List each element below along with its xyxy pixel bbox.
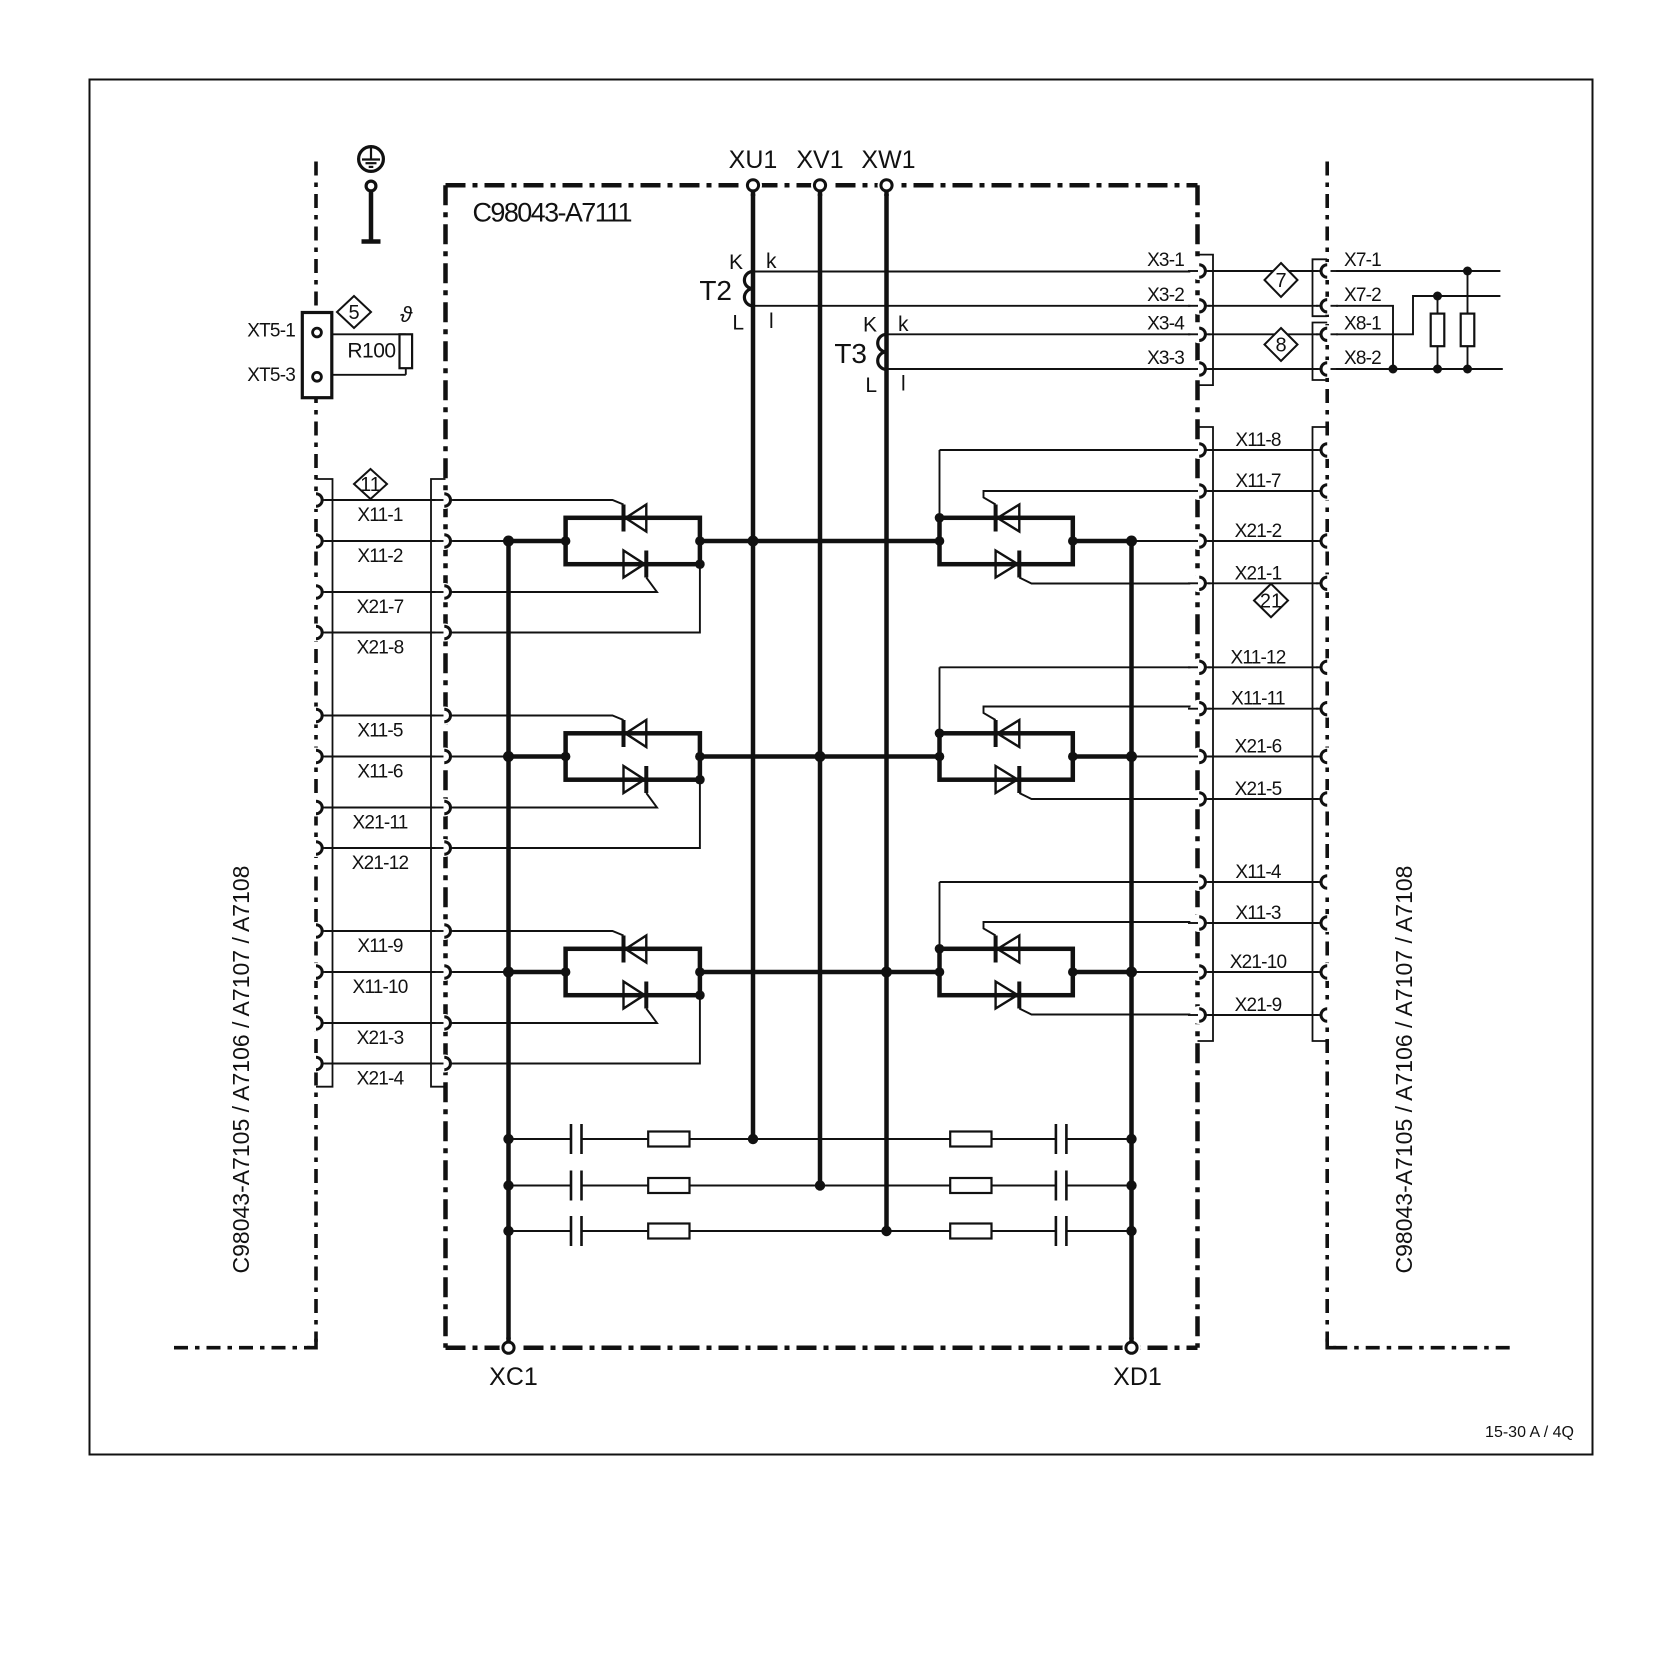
svg-text:X3-2: X3-2 bbox=[1147, 285, 1184, 306]
svg-text:X8-1: X8-1 bbox=[1344, 313, 1381, 334]
terminal XT5-1 bbox=[313, 328, 322, 337]
terminal XT5-3 bbox=[313, 372, 322, 381]
wire gate thyristor V2.2 (X21-11) bbox=[452, 793, 658, 808]
svg-text:XW1: XW1 bbox=[861, 146, 915, 174]
thyristor module V3 (left arm) bbox=[566, 949, 700, 995]
bracket X3 connector group bbox=[1198, 255, 1214, 386]
svg-text:L: L bbox=[732, 312, 744, 335]
thyristor V3.1 bbox=[626, 936, 647, 963]
thyristor V5.1 cathode bar bbox=[994, 720, 998, 747]
wire aux riser V6.1 bbox=[939, 882, 941, 949]
svg-text:X21-4: X21-4 bbox=[357, 1069, 405, 1090]
wire left connector row y=1023 bbox=[323, 1022, 444, 1024]
connector X11-9 (outer half) bbox=[316, 925, 322, 937]
wire gate thyristor V1.2 (X21-7) bbox=[452, 578, 658, 593]
junction module V3 aux corner bbox=[695, 990, 705, 1000]
junction left bus snubber row3 bbox=[503, 1226, 513, 1236]
connector X8-1 bbox=[1321, 328, 1327, 340]
junction left bus row3 bbox=[503, 967, 514, 978]
connector X11-1 (outer half) bbox=[316, 494, 322, 506]
junction phase snubber row3 bbox=[881, 1226, 891, 1236]
resistor R1a bbox=[648, 1132, 689, 1147]
thyristor V3.2 cathode bar bbox=[644, 982, 648, 1009]
thyristor V1.1 cathode bar bbox=[622, 505, 626, 532]
connector X11-7 (board half) bbox=[1199, 485, 1205, 497]
svg-text:X11-8: X11-8 bbox=[1235, 430, 1281, 451]
connector X21-2 (outer half) bbox=[1321, 535, 1327, 547]
wire gate thyristor V3.1 (X11-9) bbox=[452, 931, 624, 936]
svg-text:X21-12: X21-12 bbox=[352, 853, 409, 874]
terminal XD1 bbox=[1126, 1342, 1137, 1353]
svg-text:X3-4: X3-4 bbox=[1147, 313, 1185, 334]
wire aux riser V4.1 bbox=[939, 450, 941, 518]
svg-text:XT5-3: XT5-3 bbox=[247, 365, 295, 386]
connector X3-4 bbox=[1199, 328, 1205, 340]
wire right connector row y=491 bbox=[1206, 490, 1321, 492]
connector X21-1 (outer half) bbox=[1321, 577, 1327, 589]
capacitor C2a bbox=[570, 1171, 573, 1201]
wire X8-2 net bbox=[1331, 368, 1503, 370]
connector X21-12 (outer half) bbox=[316, 842, 322, 854]
svg-text:XV1: XV1 bbox=[796, 146, 843, 174]
wire right DC bus XD1 bbox=[1129, 541, 1134, 1342]
wire cathode aux V5.2 (X21-6) bbox=[1132, 756, 1198, 758]
wire left connector row y=592 bbox=[323, 591, 444, 593]
connector X11-12 (outer half) bbox=[1321, 661, 1327, 673]
wire X7-2 down to X8-2 net bbox=[1331, 306, 1393, 369]
svg-text:8: 8 bbox=[1275, 335, 1286, 357]
connector X11-6 (board half) bbox=[444, 750, 450, 762]
wire left connector row y=1063.5 bbox=[323, 1063, 444, 1065]
svg-text:X11-5: X11-5 bbox=[357, 721, 403, 742]
connector X21-4 (board half) bbox=[444, 1057, 450, 1069]
svg-text:XU1: XU1 bbox=[729, 146, 778, 174]
junction module V6 aux corner bbox=[935, 944, 945, 954]
svg-text:X11-1: X11-1 bbox=[357, 505, 403, 526]
connector X21-11 (board half) bbox=[444, 801, 450, 813]
wire cathode aux V1.1 (X11-2) bbox=[452, 540, 509, 542]
junction module V4 left bbox=[935, 536, 945, 546]
svg-text:X21-2: X21-2 bbox=[1235, 521, 1282, 542]
wire gate thyristor V1.1 (X11-1) bbox=[452, 500, 624, 505]
junction module V1 aux corner bbox=[695, 559, 705, 569]
connector X21-3 (outer half) bbox=[316, 1017, 322, 1029]
connector X11-10 (board half) bbox=[444, 966, 450, 978]
capacitor C1a bbox=[570, 1124, 573, 1154]
svg-text:X11-9: X11-9 bbox=[357, 936, 403, 957]
svg-text:X11-12: X11-12 bbox=[1230, 647, 1285, 668]
wire right connector row y=583.3 bbox=[1206, 582, 1321, 584]
svg-text:X11-6: X11-6 bbox=[357, 762, 403, 783]
diamond marker 11 bbox=[354, 469, 387, 499]
diamond marker 21 bbox=[1254, 584, 1288, 617]
connector X11-11 (board half) bbox=[1199, 703, 1205, 715]
connector X21-6 (board half) bbox=[1199, 750, 1205, 762]
wire gate thyristor V2.1 (X11-5) bbox=[452, 716, 624, 721]
junction X8-1 net/R1 bbox=[1433, 292, 1442, 301]
junction module V2 left bbox=[561, 752, 571, 762]
thyristor V4.2 bbox=[996, 551, 1018, 578]
thyristor V1.2 cathode bar bbox=[644, 551, 648, 578]
left phantom border bottom run bbox=[174, 1346, 310, 1350]
thyristor V3.1 cathode bar bbox=[622, 936, 626, 963]
diamond marker 7 bbox=[1265, 263, 1298, 297]
junction module V4 aux corner bbox=[935, 513, 945, 523]
terminal XV1 bbox=[814, 180, 825, 191]
svg-text:C98043-A7105 / A7106 / A7107 /: C98043-A7105 / A7106 / A7107 / A7108 bbox=[1391, 866, 1417, 1274]
junction module V1 right bbox=[695, 536, 705, 546]
wire R2 bottom lead bbox=[1467, 346, 1469, 369]
wire snubber row2 left bbox=[509, 1185, 572, 1187]
svg-text:X21-6: X21-6 bbox=[1235, 737, 1282, 758]
junction left bus snubber row1 bbox=[503, 1134, 513, 1144]
connector X11-5 (board half) bbox=[444, 709, 450, 721]
wire left bus to module V1 bbox=[509, 539, 566, 544]
connector X21-9 (outer half) bbox=[1321, 1009, 1327, 1021]
connector X11-3 (board half) bbox=[1199, 917, 1205, 929]
thyristor V6.1 bbox=[998, 936, 1020, 963]
wire left connector row y=756.5 bbox=[323, 756, 444, 758]
wire phase W vertical XW1 to snubber row3 bbox=[884, 192, 889, 1232]
connector X21-11 (outer half) bbox=[316, 801, 322, 813]
connector X11-9 (board half) bbox=[444, 925, 450, 937]
connector X11-1 (board half) bbox=[444, 494, 450, 506]
wire XT5-1 to R100 bbox=[332, 333, 406, 335]
terminal XC1 bbox=[503, 1342, 514, 1353]
wire cathode aux V4.1 (X11-8) bbox=[940, 449, 1198, 451]
junction right bus snubber row1 bbox=[1126, 1134, 1136, 1144]
wire snubber row3 left bbox=[509, 1230, 572, 1232]
connector X21-12 (board half) bbox=[444, 842, 450, 854]
wire R2 top lead bbox=[1467, 271, 1469, 314]
resistor R2 (burden) bbox=[1461, 314, 1475, 347]
wire cathode aux V3.1 (X11-10) bbox=[452, 971, 509, 973]
svg-text:l: l bbox=[769, 310, 774, 333]
junction phase snubber row2 bbox=[815, 1180, 825, 1190]
wire R1 top lead bbox=[1437, 296, 1439, 314]
thyristor V3.2 bbox=[624, 982, 645, 1009]
wire left connector row y=848 bbox=[323, 847, 444, 849]
junction left bus row2 bbox=[503, 751, 514, 762]
wire module V4 to right bus bbox=[1073, 539, 1132, 544]
thyristor V4.2 cathode bar bbox=[1017, 551, 1021, 578]
junction right bus row1 bbox=[1126, 536, 1137, 547]
wire phase to module V5 bbox=[820, 754, 940, 759]
svg-text:k: k bbox=[898, 313, 909, 336]
bracket X8 connector group bbox=[1313, 323, 1328, 381]
connector X3-3 bbox=[1199, 363, 1205, 375]
svg-text:X7-2: X7-2 bbox=[1344, 285, 1381, 306]
wire left connector row y=632.5 bbox=[323, 632, 444, 634]
wire snubber row1 mid bbox=[582, 1138, 1056, 1140]
thyristor V5.1 bbox=[998, 720, 1020, 747]
connector X8-2 bbox=[1321, 363, 1327, 375]
wire left connector row y=807.5 bbox=[323, 807, 444, 809]
wire left DC bus XC1 bbox=[506, 541, 511, 1342]
thyristor V6.1 cathode bar bbox=[994, 936, 998, 963]
connector X11-4 (outer half) bbox=[1321, 876, 1327, 888]
resistor R2a bbox=[648, 1178, 689, 1193]
wire snubber row2 right bbox=[1066, 1185, 1131, 1187]
connector X21-8 (outer half) bbox=[316, 626, 322, 638]
svg-text:21: 21 bbox=[1260, 591, 1282, 613]
wire phase V vertical XV1 to snubber row2 bbox=[818, 192, 823, 1186]
junction module V3 right bbox=[695, 967, 705, 977]
wire gate thyristor V5.2 (X21-5) bbox=[1019, 793, 1197, 799]
connector X11-7 (outer half) bbox=[1321, 485, 1327, 497]
bracket left inner connector group bbox=[431, 479, 446, 1087]
right phantom border (dash-dot) bbox=[1325, 162, 1329, 1342]
svg-text:X7-1: X7-1 bbox=[1344, 250, 1381, 271]
connector X3-1 bbox=[1199, 265, 1205, 277]
junction left bus snubber row2 bbox=[503, 1180, 513, 1190]
thyristor V4.1 cathode bar bbox=[994, 505, 998, 532]
connector X7-2 bbox=[1321, 300, 1327, 312]
wire right connector row y=923 bbox=[1206, 922, 1321, 924]
svg-text:X8-2: X8-2 bbox=[1344, 348, 1381, 369]
junction module V5 aux corner bbox=[935, 729, 945, 739]
wire T3 l to X3-3 bbox=[887, 368, 1198, 370]
junction phase snubber row1 bbox=[748, 1134, 758, 1144]
wire phase to module V6 bbox=[887, 970, 940, 975]
connector X21-5 (board half) bbox=[1199, 793, 1205, 805]
wire right connector row y=799 bbox=[1206, 798, 1321, 800]
wire left bus to module V2 bbox=[509, 754, 566, 759]
wire left connector row y=541 bbox=[323, 540, 444, 542]
terminal XU1 bbox=[747, 180, 758, 191]
junction R2/X8-2 bbox=[1463, 365, 1472, 374]
wire right connector row y=708.7 bbox=[1206, 708, 1321, 710]
resistor R100 (PTC) bbox=[400, 334, 413, 368]
svg-text:X3-3: X3-3 bbox=[1147, 348, 1184, 369]
wire X8-1 up and right bbox=[1331, 296, 1500, 334]
resistor R2b bbox=[950, 1178, 991, 1193]
wire snubber row1 left bbox=[509, 1138, 572, 1140]
svg-text:T3: T3 bbox=[834, 338, 867, 369]
junction right bus row2 bbox=[1126, 751, 1137, 762]
wire R100 bottom lead bbox=[405, 368, 407, 375]
connector X7-1 bbox=[1321, 265, 1327, 277]
terminal block XT5 bbox=[302, 313, 332, 398]
wire gate thyristor V3.2 (X21-3) bbox=[452, 1009, 658, 1024]
connector X11-8 (outer half) bbox=[1321, 444, 1327, 456]
capacitor C3a bbox=[570, 1216, 573, 1246]
connector X21-4 (outer half) bbox=[316, 1057, 322, 1069]
thyristor module V4 (right arm) bbox=[940, 518, 1073, 564]
wire right connector row y=972 bbox=[1206, 971, 1321, 973]
svg-text:XC1: XC1 bbox=[489, 1363, 538, 1391]
wire module V2 to phase bbox=[700, 754, 820, 759]
svg-text:X21-11: X21-11 bbox=[352, 813, 407, 834]
connector X21-1 (board half) bbox=[1199, 577, 1205, 589]
wire X3 to X7/X8 at y=369.0 bbox=[1206, 368, 1321, 370]
thyristor module V1 (left arm) bbox=[566, 518, 700, 564]
wire T3 k to X3-4 bbox=[887, 333, 1198, 335]
diamond marker 5 bbox=[337, 296, 371, 328]
wire phase U vertical XU1 to snubber row1 bbox=[751, 192, 756, 1140]
capacitor C3b bbox=[1055, 1216, 1058, 1246]
capacitor C1b bbox=[1055, 1124, 1058, 1154]
wire right connector row y=541 bbox=[1206, 540, 1321, 542]
junction right bus row3 bbox=[1126, 967, 1137, 978]
junction module V6 left bbox=[935, 967, 945, 977]
connector X11-10 (outer half) bbox=[316, 966, 322, 978]
connector X21-10 (outer half) bbox=[1321, 966, 1327, 978]
wire right connector row y=450 bbox=[1206, 449, 1321, 451]
wire right connector row y=1015 bbox=[1206, 1014, 1321, 1016]
left phantom border (dash-dot) bbox=[314, 162, 318, 1342]
svg-text:X21-10: X21-10 bbox=[1230, 952, 1287, 973]
junction phase row3 bbox=[881, 967, 892, 978]
svg-text:X21-1: X21-1 bbox=[1235, 563, 1282, 584]
connector X21-9 (board half) bbox=[1199, 1009, 1205, 1021]
wire module V3 to phase bbox=[700, 970, 887, 975]
capacitor C2b bbox=[1055, 1171, 1058, 1201]
svg-text:k: k bbox=[766, 250, 777, 273]
svg-text:X11-4: X11-4 bbox=[1235, 862, 1282, 883]
thyristor V6.2 bbox=[996, 982, 1018, 1009]
svg-text:T2: T2 bbox=[699, 275, 732, 306]
thyristor V2.1 cathode bar bbox=[622, 720, 626, 747]
wire cathode aux V2.1 (X11-6) bbox=[452, 756, 509, 758]
wire phase to module V4 bbox=[753, 539, 940, 544]
current transformer T3 bbox=[878, 334, 887, 369]
thyristor module V6 (right arm) bbox=[940, 949, 1073, 995]
connector X11-4 (board half) bbox=[1199, 876, 1205, 888]
wire right connector row y=756.5 bbox=[1206, 756, 1321, 758]
svg-text:15-30 A / 4Q: 15-30 A / 4Q bbox=[1485, 1424, 1574, 1441]
wire gate thyristor V5.1 (X11-11) bbox=[984, 707, 1198, 721]
wire left connector row y=715.5 bbox=[323, 715, 444, 717]
junction module V5 left bbox=[935, 752, 945, 762]
wire snubber row3 mid bbox=[582, 1230, 1056, 1232]
junction module V6 right bbox=[1068, 967, 1078, 977]
svg-text:X11-2: X11-2 bbox=[357, 546, 403, 567]
wire aux riser V5.1 bbox=[939, 667, 941, 733]
left phantom border corner bbox=[307, 1339, 316, 1348]
thyristor V1.2 bbox=[624, 551, 645, 578]
thyristor V2.2 bbox=[624, 766, 645, 793]
junction left bus row1 bbox=[503, 536, 514, 547]
thyristor V6.2 cathode bar bbox=[1017, 982, 1021, 1009]
junction module V5 right bbox=[1068, 752, 1078, 762]
resistor R1b bbox=[950, 1132, 991, 1147]
svg-text:X11-7: X11-7 bbox=[1235, 471, 1281, 492]
wire snubber row1 right bbox=[1066, 1138, 1131, 1140]
svg-text:R100: R100 bbox=[347, 340, 395, 363]
svg-text:XD1: XD1 bbox=[1113, 1363, 1162, 1391]
thyristor V2.1 bbox=[626, 720, 647, 747]
svg-text:C98043-A7111: C98043-A7111 bbox=[473, 198, 632, 228]
svg-text:7: 7 bbox=[1275, 270, 1286, 292]
board outline C98043-A7111 (dash-dot box) bbox=[446, 183, 1198, 188]
svg-text:X11-11: X11-11 bbox=[1231, 689, 1285, 710]
terminal XW1 bbox=[881, 180, 892, 191]
thyristor module V2 (left arm) bbox=[566, 733, 700, 779]
wire left connector row y=972 bbox=[323, 971, 444, 973]
svg-text:X11-3: X11-3 bbox=[1235, 903, 1281, 924]
svg-text:5: 5 bbox=[348, 302, 359, 324]
thyristor module V5 (right arm) bbox=[940, 733, 1073, 779]
svg-text:X21-8: X21-8 bbox=[357, 638, 404, 659]
svg-text:K: K bbox=[863, 314, 877, 337]
connector X11-12 (board half) bbox=[1199, 661, 1205, 673]
connector X11-11 (outer half) bbox=[1321, 703, 1327, 715]
junction right bus snubber row3 bbox=[1126, 1226, 1136, 1236]
wire cathode aux V5.1 (X11-12) bbox=[940, 666, 1198, 668]
wire gate thyristor V6.1 (X11-3) bbox=[984, 922, 1198, 936]
svg-text:X21-3: X21-3 bbox=[357, 1028, 404, 1049]
svg-text:X21-7: X21-7 bbox=[357, 597, 404, 618]
connector X3-2 bbox=[1199, 300, 1205, 312]
wire module V1 to phase bbox=[700, 539, 753, 544]
wire gate thyristor V4.2 (X21-1) bbox=[1019, 578, 1197, 584]
wire T2 k to X3-1 bbox=[753, 271, 1198, 273]
right phantom border corner bbox=[1327, 1339, 1336, 1348]
wire X3 to X7/X8 at y=271.0 bbox=[1206, 270, 1321, 272]
bracket right inner connector group bbox=[1198, 427, 1214, 1041]
junction R1/X8-2 bbox=[1433, 365, 1442, 374]
right phantom border bottom run bbox=[1333, 1346, 1513, 1350]
diamond marker 8 bbox=[1265, 328, 1298, 361]
bracket right outer connector group bbox=[1313, 427, 1328, 1041]
connector X21-3 (board half) bbox=[444, 1017, 450, 1029]
resistor R3b bbox=[950, 1224, 991, 1239]
junction phase row1 bbox=[748, 536, 759, 547]
wire cathode aux V1.2 (X21-8) bbox=[452, 564, 700, 632]
svg-text:ϑ: ϑ bbox=[400, 302, 413, 327]
wire X7-1 net bbox=[1331, 270, 1500, 272]
junction module V1 left bbox=[561, 536, 571, 546]
wire gate thyristor V6.2 (X21-9) bbox=[1019, 1009, 1197, 1015]
svg-text:X3-1: X3-1 bbox=[1147, 250, 1184, 271]
wire left bus to module V3 bbox=[509, 970, 566, 975]
connector masks bbox=[307, 491, 325, 509]
wire T2 l to X3-2 bbox=[753, 305, 1198, 307]
junction module V4 right bbox=[1068, 536, 1078, 546]
connector X11-5 (outer half) bbox=[316, 709, 322, 721]
junction module V2 right bbox=[695, 752, 705, 762]
thyristor V5.2 cathode bar bbox=[1017, 766, 1021, 793]
junction module V2 aux corner bbox=[695, 775, 705, 785]
connector X11-6 (outer half) bbox=[316, 750, 322, 762]
thyristor V2.2 cathode bar bbox=[644, 766, 648, 793]
wire gate thyristor V4.1 (X11-7) bbox=[984, 491, 1198, 505]
svg-text:K: K bbox=[729, 251, 743, 274]
current transformer T2 bbox=[744, 272, 753, 306]
connector X21-10 (board half) bbox=[1199, 966, 1205, 978]
connector X11-3 (outer half) bbox=[1321, 917, 1327, 929]
connector X21-5 (outer half) bbox=[1321, 793, 1327, 805]
junction X7-1/R2 bbox=[1463, 267, 1472, 276]
wire cathode aux V4.2 (X21-2) bbox=[1132, 540, 1198, 542]
wire X3 to X7/X8 at y=334.3 bbox=[1206, 333, 1321, 335]
outer drawing frame bbox=[90, 80, 1593, 1455]
thyristor V4.1 bbox=[998, 505, 1020, 532]
svg-text:C98043-A7105 / A7106 / A7107 /: C98043-A7105 / A7106 / A7107 / A7108 bbox=[228, 866, 254, 1274]
junction module V3 left bbox=[561, 967, 571, 977]
connector X21-7 (outer half) bbox=[316, 586, 322, 598]
thyristor V5.2 bbox=[996, 766, 1018, 793]
wire cathode aux V2.2 (X21-12) bbox=[452, 780, 700, 848]
wire cathode aux V6.2 (X21-10) bbox=[1132, 971, 1198, 973]
wire right connector row y=882 bbox=[1206, 881, 1321, 883]
resistor R3a bbox=[648, 1224, 689, 1239]
connector X21-7 (board half) bbox=[444, 586, 450, 598]
connector X21-2 (board half) bbox=[1199, 535, 1205, 547]
svg-text:X21-9: X21-9 bbox=[1235, 995, 1282, 1016]
wire module V6 to right bus bbox=[1073, 970, 1132, 975]
